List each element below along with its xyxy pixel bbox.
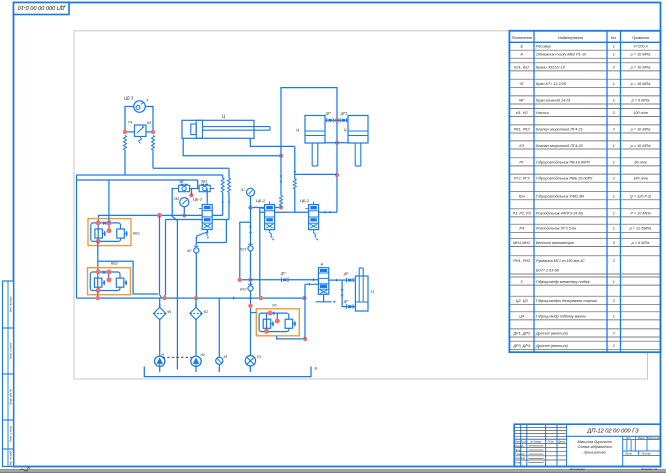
wire F2 v [195,298,198,356]
wire H y242 [196,220,226,243]
left margin strip [3,281,14,467]
node U0 b [275,319,280,324]
wire spring pair left [221,175,224,215]
svg-text:МН1,МН2: МН1,МН2 [513,241,531,245]
label C2 [296,128,299,132]
wire C left port [183,138,281,156]
svg-text:Р4: Р4 [519,227,524,231]
svg-text:80 л/хв: 80 л/хв [634,161,646,165]
svg-text:ДР: ДР [343,272,349,276]
svg-text:Ц: Ц [296,128,299,132]
wire x165 down [163,220,165,299]
bottom gray strip [0,469,666,473]
shaft dashed [163,356,192,358]
svg-text:Кран КТ= 12.1/1б: Кран КТ= 12.1/1б [536,82,567,86]
label RG3 [300,198,310,203]
svg-text:Подп. и дата: Подп. и дата [9,342,13,359]
svg-text:Т.контр.: Т.контр. [515,452,526,456]
node bus 260 [259,296,263,300]
svg-text:РК1, РК2: РК1, РК2 [514,128,531,132]
svg-text:МГ: МГ [519,99,525,103]
svg-text:ДР: ДР [343,300,349,304]
valve group KB1 [88,219,131,246]
svg-text:КЛ2: КЛ2 [240,288,246,292]
svg-text:Копировал: Копировал [570,467,585,471]
wire loop top [281,88,337,156]
node relief right [151,130,155,134]
throttle DR2 [347,278,354,282]
valve RG3 [305,202,318,241]
ball valve KL [194,246,199,253]
svg-text:Крани 3021/2-10: Крани 3021/2-10 [536,66,566,70]
check valve ZV [175,184,194,192]
svg-text:К1: К1 [224,355,228,359]
throttle DR5 [340,118,348,122]
svg-text:Инв. № дубл.: Инв. № дубл. [9,450,13,466]
svg-text:р = 10 МПа: р = 10 МПа [630,66,651,70]
svg-text:1: 1 [613,161,615,165]
svg-text:Листів: Листів [640,451,651,455]
svg-text:Гідроциліндри блокування стріч: Гідроциліндри блокування стрічок [536,299,597,303]
svg-text:Кіл.: Кіл. [611,36,617,40]
svg-text:Ц2, Ц3: Ц2, Ц3 [516,299,529,303]
wire N2 suction [195,367,197,373]
svg-text:КЛ: КЛ [187,249,192,253]
valve RG1 [197,202,213,239]
svg-text:ДР: ДР [325,112,331,116]
wire loop right H [295,173,337,175]
svg-text:ЦБ 3: ЦБ 3 [124,96,134,101]
parts table [509,31,660,352]
svg-text:Подп. и дата: Подп. и дата [9,425,13,442]
svg-text:Е1: Е1 [257,355,261,359]
svg-text:1: 1 [613,45,615,49]
svg-text:Розподільник ПГ3.5-бн: Розподільник ПГ3.5-бн [536,227,577,231]
node KB1 d [96,239,101,244]
svg-text:р = 16 МПа: р = 16 МПа [630,82,651,86]
label DR4 [325,112,331,116]
pen artifact [20,466,30,471]
svg-text:р = 10 МПа: р = 10 МПа [630,128,651,132]
title block [514,424,660,466]
reducer A [318,268,328,295]
label KL [187,249,192,253]
wire valve row2 [260,211,337,214]
pump N2 [191,356,201,366]
wire U0 in [251,312,257,314]
filter F2 [190,307,202,319]
wire RG1 top [206,189,208,202]
svg-text:ДР1, ДР2: ДР1, ДР2 [512,331,531,335]
wire H y181 [77,180,198,189]
label ZV [179,180,184,184]
wire cyl bottoms [325,142,348,144]
svg-text:1: 1 [613,82,615,86]
gauge MN2 [180,198,189,216]
node row 250 [248,205,252,209]
node U0 a [268,311,273,316]
pump N1 [155,356,165,366]
svg-text:КБ2: КБ2 [111,262,119,266]
bus arrow [233,296,236,299]
check valve ZV1 [195,184,214,192]
label C4 [371,290,374,294]
wire C right port [250,138,294,146]
svg-text:ДР1: ДР1 [340,112,348,116]
node U0 right [303,337,307,341]
label B [315,366,318,371]
svg-text:Взам. инв.№: Взам. инв.№ [9,389,13,405]
motor E1 [245,356,255,372]
svg-text:Примітка: Примітка [632,36,649,40]
spring relief left [124,136,127,151]
node bus 304 [302,296,306,300]
svg-text:ДР: ДР [280,272,286,276]
svg-text:ЗВ1: ЗВ1 [201,180,207,184]
wire x239 branch [240,222,251,280]
svg-text:А: А [320,262,324,267]
valve group KB2 [88,268,131,295]
wire A out [329,279,347,282]
svg-text:1: 1 [613,211,615,215]
drawing area border [74,31,648,379]
wire main bus [77,297,306,299]
svg-text:Літ.: Літ. [625,436,632,440]
label DR3 [343,300,349,304]
label C3 [344,128,347,132]
svg-text:Гідроциліндр механізму подачі: Гідроциліндр механізму подачі [536,280,590,284]
wire x250 long [250,208,252,356]
svg-text:Юн: Юн [519,194,526,198]
node KB2 d [96,288,101,293]
node relief left [123,130,127,134]
svg-text:Дроселі (вентилі): Дроселі (вентилі) [535,344,568,348]
svg-text:Изм: Изм [515,440,520,444]
svg-text:1: 1 [613,53,615,57]
wire x159 down [160,215,162,298]
svg-text:Найменування: Найменування [558,36,583,40]
node x250 bus2 [248,304,252,308]
node U0 c [264,329,269,334]
svg-text:Гідророзподільник РВБ 20.00Р0: Гідророзподільник РВБ 20.00Р0 [536,177,593,181]
svg-text:Обмежник тиску МБ2 Р1-10: Обмежник тиску МБ2 Р1-10 [536,53,587,57]
label KB2 [111,262,119,266]
svg-text:Р = 10 МПа: Р = 10 МПа [630,211,650,215]
label N2 [201,353,205,357]
svg-text:КБ1: КБ1 [133,232,140,236]
wire KB2 right link [98,261,158,294]
svg-text:Масштаб: Масштаб [647,436,660,440]
tank B [144,367,311,377]
svg-text:Кран зливний 14-б1: Кран зливний 14-б1 [536,99,571,103]
wire x196 down [195,237,197,298]
svg-text:Подп.: Подп. [548,440,555,444]
svg-text:Утв.: Утв. [515,460,521,464]
node KB1 b [107,220,112,225]
label MN3 [241,188,246,192]
label MN1 [124,96,149,103]
svg-text:Гідророзподільник РВ 10.00Р0: Гідророзподільник РВ 10.00Р0 [536,161,591,165]
valve RG2 [261,202,274,241]
svg-text:2М: 2М [173,197,179,201]
wire relief left down [124,150,126,175]
cylinder C3 [348,116,368,167]
label KZ [128,121,152,126]
svg-text:Лист: Лист [519,440,528,444]
wire N1 suction [159,367,161,373]
wire valve return [259,208,261,299]
svg-text:Дата: Дата [557,440,565,444]
svg-text:Гідророзподільник У462.8Н: Гідророзподільник У462.8Н [536,194,584,198]
svg-text:ЗВ: ЗВ [179,180,184,184]
svg-text:Розподільник 44ПГ3-24 М): Розподільник 44ПГ3-24 М) [536,211,584,215]
svg-text:Н2: Н2 [201,353,205,357]
drain valve MG [216,298,223,372]
node KB1 a [96,220,101,225]
svg-text:1: 1 [613,144,615,148]
spring x295 [293,146,296,212]
svg-text:1: 1 [613,227,615,231]
label DR2 [343,272,349,276]
svg-text:Ф1: Ф1 [167,310,172,314]
wire valve row [251,207,282,209]
svg-text:Маса: Маса [638,436,645,440]
svg-text:р = 10 МПа: р = 10 МПа [630,53,651,57]
svg-text:ЦБ-2: ЦБ-2 [256,198,266,203]
node MN2 [182,213,186,217]
label F2 [204,310,209,314]
svg-text:Q = 120 Р Q: Q = 120 Р Q [630,194,651,198]
svg-text:1: 1 [613,99,615,103]
wire relief right down [152,150,154,168]
svg-text:Ресивер: Ресивер [536,45,551,49]
wire KB1-KB2 [97,241,99,272]
cylinder C body [182,120,270,138]
node ZV junction [189,193,193,197]
valve KZ [135,125,147,144]
label DRm [280,272,286,276]
valve group U0 [256,309,299,336]
svg-text:1: 1 [613,280,615,284]
svg-text:Н1, Н2: Н1, Н2 [516,111,529,115]
node x250 H15 [248,278,252,282]
svg-text:Б077.2.63-68: Б077.2.63-68 [536,269,560,273]
wire H y215 [99,215,223,222]
label MN2 [173,197,179,201]
svg-text:1: 1 [613,194,615,198]
label E1 [257,355,261,359]
svg-text:Лист: Лист [624,451,633,455]
ball valve KL1 [248,244,253,251]
node KB2 b [107,270,112,275]
wire KB1 feed right [108,180,110,222]
svg-text:Г4: Г4 [128,121,132,125]
node KB1 c [107,228,112,233]
svg-text:ЦБ-2: ЦБ-2 [193,197,203,202]
label RG2 [256,198,266,203]
wire U0 out [277,336,305,339]
svg-text:Кл1, Кл2: Кл1, Кл2 [514,66,530,70]
wire ZV mid [190,189,200,196]
svg-text:100 л/хв: 100 л/хв [633,111,647,115]
svg-text:Вентилі манометрів: Вентилі манометрів [536,241,574,245]
svg-text:1: 1 [613,314,615,318]
flow arrows x250 [249,225,252,233]
wire ZV left [172,189,177,370]
label RG1 [193,197,203,202]
node KB2 a [96,270,101,275]
wire center cyl down [336,120,338,212]
svg-text:Н.контр.: Н.контр. [515,456,526,460]
wire spring pair right [228,168,231,219]
corner stamp [14,3,70,15]
svg-text:Р1, Р2, Р3: Р1, Р2, Р3 [513,211,532,215]
svg-text:ЦБ-2: ЦБ-2 [300,198,310,203]
node row 280 [279,205,283,209]
svg-text:Гідроциліндр підйому мачти: Гідроциліндр підйому мачти [536,314,587,318]
wire H15b [289,278,319,281]
spring x281 [280,156,283,208]
svg-text:Клапан зворотний ПГ4-21: Клапан зворотний ПГ4-21 [536,128,583,132]
svg-text:Насоси: Насоси [536,111,550,115]
wire H y175 [77,174,223,176]
svg-text:Клапан зворотний ПГ4-20: Клапан зворотний ПГ4-20 [536,144,584,148]
svg-text:ДП-12 02 00 000 ГЗ: ДП-12 02 00 000 ГЗ [586,429,639,435]
wire to C4 bottom [354,306,356,308]
svg-text:КЗ: КЗ [519,144,524,148]
throttle DR4 [325,118,340,122]
svg-text:р = 6 МПа: р = 6 МПа [631,241,650,245]
throttle DR mid [282,278,289,282]
node bus 196 [194,296,198,300]
node KB2 c [107,277,112,282]
svg-text:принципова: принципова [584,449,607,454]
wire to C4 [354,279,356,281]
svg-text:ДР3, ДР4: ДР3, ДР4 [512,344,530,348]
svg-text:РН1, РН2: РН1, РН2 [513,259,531,263]
wire KB2 down [97,292,99,299]
label KL1 [240,248,246,252]
svg-text:Пров.: Пров. [515,448,522,452]
label KB1 [133,232,140,236]
label F1 [167,310,172,314]
wire H15 [240,279,282,281]
wire H y168 [153,167,229,169]
node C line [279,154,283,158]
label A [320,262,324,267]
svg-text:РГ2, РГ3: РГ2, РГ3 [514,177,530,181]
node H215 left [157,213,162,218]
node H15 left [238,278,242,282]
ball valve KL2 [248,284,253,291]
spring relief right [152,136,155,151]
node cyl bottoms [335,141,339,145]
throttle DR3 [347,304,354,308]
label C [222,114,225,119]
svg-text:р = 12.5МПа: р = 12.5МПа [629,227,652,231]
label ZV1 [201,180,207,184]
svg-text:Ц4: Ц4 [519,314,524,318]
svg-text:Рукавина МГ1 в=150 мм-10: Рукавина МГ1 в=150 мм-10 [536,259,585,263]
svg-text:Разраб.: Разраб. [515,444,525,448]
label N1 [162,353,165,357]
node bus 164 [163,296,167,300]
wire MN3 stem [250,196,252,207]
svg-text:Ц: Ц [344,128,347,132]
gauge MN1 [134,101,146,113]
wire C4 lower branch [341,280,347,307]
svg-text:Позначення: Позначення [512,36,532,40]
label U0 [272,304,277,308]
svg-text:А: А [519,53,523,57]
svg-text:Дроселі (вентилі): Дроселі (вентилі) [535,331,568,335]
svg-text:140 л/хв: 140 л/хв [633,177,647,181]
svg-text:г: г [147,98,149,102]
wire H16 arrows [305,283,318,286]
wire relief loop [125,107,153,132]
svg-text:ЗС: ЗС [241,188,246,192]
wire left return [76,175,78,298]
wire H y219 [166,219,230,221]
text under frame [570,467,658,471]
svg-text:Ц: Ц [371,290,374,294]
svg-text:№ докум.: № докум. [530,440,542,444]
svg-text:р = 10 МПа: р = 10 МПа [630,144,651,148]
reducer A drain [316,294,336,303]
svg-text:КЛ1: КЛ1 [240,248,246,252]
node loop mid [335,173,339,177]
svg-text:Ф2: Ф2 [204,310,209,314]
gauge MN3 [247,188,255,196]
cylinder C4 [355,268,368,311]
label KL2 [240,288,246,292]
svg-text:Ц: Ц [222,114,225,119]
node bus 97 [96,296,100,300]
label MG [224,355,228,359]
svg-text:V=200 л: V=200 л [633,45,648,49]
wire F1 v [158,298,161,356]
node T throttles [335,118,339,122]
svg-text:ДП 000 00 00 0-10: ДП 000 00 00 0-10 [17,4,66,10]
svg-text:р = 6 МПа: р = 6 МПа [631,99,650,103]
svg-text:Формат А1: Формат А1 [641,467,658,471]
filter F1 [154,307,166,319]
svg-text:Б: Б [315,366,318,371]
label DR5 [340,112,348,116]
cylinder C2 [305,116,325,167]
wire x305 [304,284,306,339]
svg-text:Инв. № подл.: Инв. № подл. [9,296,13,312]
